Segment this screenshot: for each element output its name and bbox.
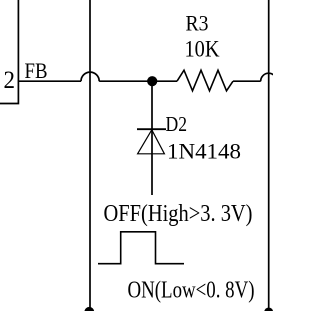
annotation pulse waveform [98,232,184,264]
wire resistor to right hop [233,80,261,82]
svg-text:1N4148: 1N4148 [167,138,241,163]
svg-text:2: 2 [4,67,16,94]
svg-text:FB: FB [25,58,48,83]
wire FB pin to hop [18,80,81,82]
junction dot at bottom of right net (clipped) [264,308,273,311]
wire junction to diode D2 (passes through symbol) [151,81,153,195]
net line (left vertical bus) [89,0,91,311]
junction dot (node FB / D2 / R3) [147,76,157,86]
resistor R3 zigzag [177,70,233,91]
diode D2 cathode bar [137,128,166,130]
net line (right vertical bus) [268,0,270,311]
wire hop over right net (no connection, clipped at edge) [261,73,277,81]
svg-text:D2: D2 [166,112,188,136]
wire hop to resistor [99,80,177,82]
svg-text:OFF(High>3. 3V): OFF(High>3. 3V) [104,201,253,227]
svg-text:R3: R3 [186,11,209,36]
IC U1 box right edge [0,0,18,104]
svg-text:10K: 10K [185,37,220,62]
wire hop over left net (no connection) [81,72,99,81]
junction dot at bottom of left net (clipped) [84,307,94,311]
diode D2 triangle (anode up arrow body) [138,130,165,154]
svg-text:ON(Low<0. 8V): ON(Low<0. 8V) [128,278,255,304]
